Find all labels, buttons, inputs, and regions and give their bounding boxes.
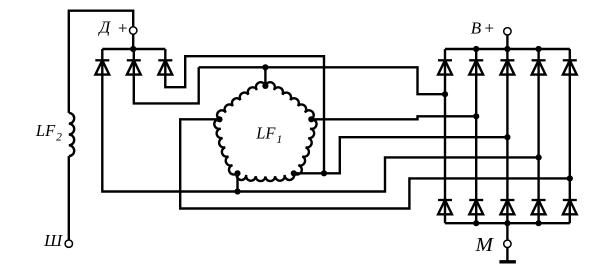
wire phase column 4 <box>537 75 539 200</box>
wire VD3 to phase C <box>165 56 324 173</box>
diode VD3 <box>164 49 166 75</box>
wire VD2 to phase A <box>134 67 199 103</box>
junction negative bus column 4 <box>536 220 542 226</box>
wire M to ground <box>506 248 508 262</box>
wire negative bus M <box>445 222 570 224</box>
inductor LF2 <box>69 113 74 156</box>
svg-text:Д: Д <box>97 18 111 37</box>
diode VD1 <box>101 49 103 75</box>
junction phase C column 3 <box>504 134 510 140</box>
diode VD2 <box>133 49 135 75</box>
junction positive bus column 3 <box>504 46 510 52</box>
diode VD9 <box>444 200 446 223</box>
diode VD8 <box>569 49 571 75</box>
wire phase B right tap to rectifier column 2 <box>311 116 476 119</box>
terminal B+ <box>504 28 511 35</box>
junction phase B column 2 <box>473 113 479 119</box>
junction Д+ bus <box>130 46 136 52</box>
junction phase E column 5 <box>567 175 573 181</box>
node LF1 bottom-right tap <box>291 170 297 176</box>
junction negative bus column 2 <box>473 220 479 226</box>
wire phase A to rectifier column 1 <box>199 67 445 94</box>
wire positive bus B+ <box>445 48 570 50</box>
diode VD7 <box>537 49 539 75</box>
node LF1 left tap <box>216 116 222 122</box>
terminal M <box>504 240 511 247</box>
svg-text:В+: В+ <box>471 18 495 37</box>
junction phase D column 4 <box>536 154 542 160</box>
diode VD11 <box>506 200 508 223</box>
junction positive bus column 2 <box>473 46 479 52</box>
wire phase column 1 <box>444 75 446 200</box>
junction phase A tap <box>262 64 268 70</box>
junction phase D tap <box>234 188 240 194</box>
diode VD13 <box>569 200 571 223</box>
ground <box>499 260 516 263</box>
junction phase A column 1 <box>442 91 448 97</box>
wire LF1 bottom-left tap riser <box>236 173 238 191</box>
node LF1 top tap <box>262 83 268 89</box>
junction negative bus column 3 <box>504 220 510 226</box>
wire phase column 2 <box>475 75 477 200</box>
junction positive bus column 4 <box>536 46 542 52</box>
diode VD4 <box>444 49 446 75</box>
svg-text:Ш: Ш <box>43 231 63 250</box>
terminal Д+ <box>130 27 137 34</box>
node LF1 bottom-left tap <box>234 170 240 176</box>
wire phase column 5 <box>569 75 571 200</box>
terminal Ш <box>65 240 72 247</box>
wire Д+ to diode bus <box>132 34 134 49</box>
wire Д+ terminal loop to LF2 <box>69 11 133 113</box>
diode VD6 <box>506 49 508 75</box>
diode VD12 <box>537 200 539 223</box>
svg-text:М: М <box>475 234 495 256</box>
wire M riser <box>506 223 508 240</box>
wire B+ riser <box>506 35 508 49</box>
wire phase E left tap to rectifier column 5 <box>180 119 570 208</box>
svg-text:+: + <box>117 19 128 38</box>
wire field diode bus <box>102 48 165 50</box>
diode VD10 <box>475 200 477 223</box>
diode VD5 <box>475 49 477 75</box>
wire LF1 top tap riser <box>264 67 266 86</box>
wire phase C bottom-right tap to rectifier column 3 <box>294 137 508 173</box>
wire LF2 to Ш <box>68 156 70 240</box>
junction VD3 phase C <box>321 170 327 176</box>
stator winding LF1 <box>214 82 316 181</box>
wire VD1 phase D to rectifier column 4 <box>102 75 538 192</box>
wire phase column 3 <box>506 75 508 200</box>
node LF1 right tap <box>308 116 314 122</box>
